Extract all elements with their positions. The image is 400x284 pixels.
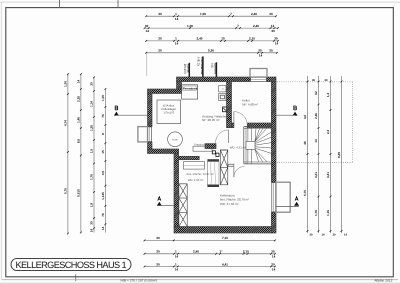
svg-text:1,76: 1,76 (90, 174, 94, 180)
svg-text:2,10: 2,10 (249, 37, 255, 41)
section B right: line (276, 114, 295, 116)
svg-text:14: 14 (175, 255, 179, 259)
duct chase vertical (pipes) (207, 159, 219, 161)
svg-text:14: 14 (146, 29, 150, 33)
svg-text:14: 14 (77, 80, 81, 84)
svg-text:175x170: 175x170 (163, 111, 174, 115)
boiler circle (168, 132, 183, 147)
svg-text:15: 15 (221, 37, 225, 41)
svg-text:30: 30 (156, 236, 160, 240)
svg-text:1,00: 1,00 (101, 95, 105, 101)
dimension chain right 1 (307, 76, 309, 233)
svg-text:8: 8 (101, 133, 105, 135)
svg-text:HE 2x: HE 2x (197, 57, 201, 66)
svg-text:4,41: 4,41 (326, 172, 330, 178)
light shaft top (250, 69, 267, 78)
svg-text:4,5: 4,5 (101, 171, 105, 176)
door Keller (233, 112, 235, 125)
light shaft left (138, 127, 148, 142)
dimension chain right 2 (318, 76, 320, 233)
svg-text:76: 76 (101, 213, 105, 217)
section B left: line (116, 114, 147, 116)
svg-text:5,75: 5,75 (64, 188, 68, 194)
svg-text:30: 30 (310, 234, 313, 237)
svg-text:2,40: 2,40 (253, 24, 259, 28)
svg-text:14: 14 (272, 267, 276, 271)
svg-text:14: 14 (272, 255, 276, 259)
dimension chain left 2 (80, 74, 82, 232)
svg-text:14: 14 (175, 42, 179, 46)
section A left: arrow (157, 202, 162, 206)
svg-text:30: 30 (274, 37, 278, 41)
svg-text:30: 30 (269, 12, 273, 16)
svg-text:bes. Fläche: 19,97 m²: bes. Fläche: 19,97 m² (187, 172, 214, 176)
washer appliance rect (184, 162, 205, 169)
svg-text:5,75: 5,75 (303, 190, 307, 196)
dimension chain top 1 (146, 15, 276, 17)
svg-text:NS: NS (210, 63, 214, 67)
svg-text:30: 30 (312, 79, 315, 82)
appliance box W1 (Keller wall) (219, 86, 226, 92)
utility riser 1 (188, 63, 190, 77)
page bottom edge band (0, 283, 400, 284)
electro panel box (223, 107, 227, 112)
svg-text:1,76: 1,76 (314, 210, 318, 216)
svg-text:1,00: 1,00 (64, 81, 68, 87)
svg-text:5,36: 5,36 (208, 49, 214, 53)
utility riser 2 (202, 56, 204, 77)
svg-text:NF: 28,95 m²: NF: 28,95 m² (202, 118, 220, 122)
section B right: arrow (293, 112, 298, 116)
svg-text:WD: 4,31 m²: WD: 4,31 m² (230, 145, 246, 149)
svg-text:KELLERGESCHOSS HAUS 1: KELLERGESCHOSS HAUS 1 (16, 260, 127, 270)
dimension chain left 3 (93, 77, 95, 232)
svg-text:30: 30 (333, 234, 336, 237)
svg-text:14: 14 (259, 54, 263, 58)
shaft center (X-hatched) (220, 150, 227, 185)
title box KELLERGESCHOSS HAUS 1 (11, 258, 131, 270)
svg-text:2,26: 2,26 (314, 113, 318, 119)
dimension chain left 4 (104, 89, 106, 233)
svg-text:1,14: 1,14 (90, 101, 94, 107)
svg-text:15: 15 (101, 150, 105, 154)
svg-text:Allplan 2012: Allplan 2012 (374, 278, 392, 282)
section A right: letter (295, 197, 298, 201)
svg-text:30: 30 (145, 24, 149, 28)
svg-text:2,10: 2,10 (243, 250, 249, 254)
section A left: line (159, 204, 174, 206)
svg-text:4,74: 4,74 (64, 120, 68, 126)
svg-text:1,00: 1,00 (200, 12, 206, 16)
dimension chain top 4 (146, 52, 277, 54)
svg-text:7,10: 7,10 (222, 236, 228, 240)
shaft chimney left (X-hatched) (179, 184, 187, 227)
svg-text:1: 1 (175, 37, 177, 41)
page edge left (0, 2, 2, 280)
section B left: arrow (114, 112, 119, 116)
dimension chain top 3 (146, 40, 278, 42)
fold mark top 1 (59, 0, 61, 8)
svg-text:14: 14 (275, 42, 279, 46)
svg-text:2,40: 2,40 (193, 250, 199, 254)
svg-text:30: 30 (269, 49, 273, 53)
section B right: letter (294, 106, 297, 110)
dotted neighbour house outline (277, 81, 353, 83)
svg-text:1,135: 1,135 (101, 192, 105, 200)
svg-text:1,4: 1,4 (326, 93, 330, 98)
door Kellerraum (234, 165, 244, 167)
fold mark top 2 (117, 0, 119, 8)
svg-text:2,40: 2,40 (197, 37, 203, 41)
svg-text:H/B = 270 / 297 (0.08m²): H/B = 270 / 297 (0.08m²) (121, 278, 157, 282)
svg-text:1: 1 (175, 250, 177, 254)
svg-text:14: 14 (175, 17, 179, 21)
svg-text:5,515: 5,515 (77, 189, 81, 197)
page edge top (0, 1, 400, 3)
svg-text:1: 1 (175, 12, 177, 16)
svg-text:9,49: 9,49 (337, 152, 341, 158)
door Flur (Heizung to hall) (228, 130, 230, 143)
svg-text:14: 14 (344, 234, 347, 237)
svg-text:3,6: 3,6 (303, 115, 307, 120)
svg-text:30: 30 (158, 49, 162, 53)
svg-text:1: 1 (175, 262, 177, 266)
svg-text:30: 30 (90, 82, 94, 86)
svg-text:30: 30 (90, 221, 94, 225)
svg-text:36: 36 (303, 141, 307, 145)
svg-text:30: 30 (271, 29, 275, 33)
svg-text:WD: 2,50 m²: WD: 2,50 m² (188, 178, 204, 182)
sink trough fixture (193, 146, 212, 151)
svg-text:30: 30 (158, 12, 162, 16)
window top wall (250, 77, 267, 82)
svg-text:Boiler: Boiler (172, 138, 178, 141)
dimension chain bottom 1 (145, 239, 276, 241)
svg-text:Fettabscheider: Fettabscheider (194, 143, 211, 146)
svg-text:14: 14 (271, 24, 275, 28)
wall hall bottom west of door (228, 164, 234, 166)
svg-text:2,26: 2,26 (77, 96, 81, 102)
svg-text:30: 30 (156, 262, 160, 266)
svg-text:7: 7 (237, 24, 239, 28)
svg-text:NF: 4,68 m²: NF: 4,68 m² (242, 102, 258, 106)
dimension chain top 2 (145, 27, 278, 29)
svg-text:4,41: 4,41 (314, 172, 318, 178)
svg-text:1,26: 1,26 (90, 125, 94, 131)
dimension chain left 1 (67, 74, 69, 233)
section A right: line (276, 205, 299, 207)
svg-text:30: 30 (271, 262, 275, 266)
appliance box W2 (219, 94, 226, 101)
svg-text:8,5: 8,5 (77, 139, 81, 144)
svg-text:1,8: 1,8 (90, 203, 94, 208)
utility riser 3 (215, 62, 217, 77)
svg-text:DN100: DN100 (183, 64, 187, 74)
dimension chain right 4 (341, 76, 343, 233)
svg-text:1,00: 1,00 (187, 24, 193, 28)
wall stub Flur door jamb (227, 127, 234, 129)
svg-text:2,40: 2,40 (251, 12, 257, 16)
svg-text:14: 14 (101, 226, 105, 230)
window left wall (147, 127, 149, 143)
svg-text:WD: 37,52 m²: WD: 37,52 m² (220, 202, 239, 206)
Fernwaerme box (182, 85, 198, 99)
svg-text:62: 62 (314, 91, 318, 95)
light shaft right (276, 182, 290, 212)
dimension chain bottom 2 (145, 253, 276, 255)
svg-text:Fernwärme: Fernwärme (183, 87, 198, 90)
svg-text:7: 7 (230, 12, 232, 16)
section A right: arrow (294, 202, 299, 206)
fold mark bottom (75, 275, 77, 282)
svg-text:30: 30 (271, 250, 275, 254)
svg-text:1,46: 1,46 (77, 117, 81, 123)
section B left: letter (115, 106, 118, 110)
staircase winder (244, 127, 272, 164)
svg-text:2,4: 2,4 (326, 130, 330, 135)
svg-text:1,16: 1,16 (326, 210, 330, 216)
small dark fixture boxes at chase top (212, 151, 215, 154)
svg-text:30: 30 (325, 79, 328, 82)
svg-text:1,5: 1,5 (90, 149, 94, 154)
svg-text:14: 14 (90, 229, 94, 233)
section A left: letter (158, 197, 161, 201)
footer separator line (2, 279, 398, 281)
dimension chain bottom 3 (145, 266, 276, 268)
svg-text:14: 14 (322, 234, 325, 237)
svg-text:Tr: Tr (222, 88, 224, 91)
svg-text:14: 14 (314, 139, 318, 143)
ETA box pellets (157, 100, 181, 124)
window right wall (271, 182, 273, 212)
extension line top-left corner (146, 54, 148, 76)
svg-text:30: 30 (156, 250, 160, 254)
svg-text:4,41: 4,41 (222, 262, 228, 266)
svg-text:30: 30 (258, 49, 262, 53)
svg-text:30: 30 (158, 37, 162, 41)
dimension chain right 3 (330, 76, 332, 233)
svg-text:14: 14 (175, 267, 179, 271)
svg-text:76: 76 (101, 114, 105, 118)
